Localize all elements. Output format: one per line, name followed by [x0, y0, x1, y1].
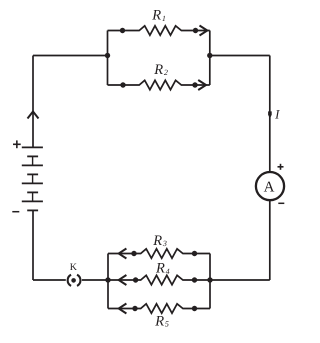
current arrow on R2 branch: [198, 80, 206, 90]
svg-text:A: A: [264, 179, 275, 195]
wire left bus of top parallel group: [107, 31, 109, 86]
wire bottom main right: [210, 279, 270, 281]
battery B1 (4 cells): [22, 147, 43, 210]
svg-text:I: I: [274, 108, 280, 122]
node at top-right junction: [207, 53, 212, 58]
node R2 left: [120, 82, 125, 87]
current direction mark on right wire: [268, 111, 272, 118]
node R3 right: [192, 251, 197, 256]
node R2 right: [192, 82, 197, 87]
node R4 right: [192, 277, 197, 282]
switch K: [68, 275, 81, 286]
resistor R2: [108, 80, 210, 89]
node at bottom-left junction: [105, 277, 110, 282]
node R1 left: [120, 28, 125, 33]
switch K contact dot: [71, 278, 76, 283]
current arrow on R5 branch: [119, 304, 127, 314]
resistor R1: [108, 26, 210, 35]
svg-text:R5: R5: [154, 313, 169, 329]
wire top main left: [33, 55, 108, 57]
svg-text:R4: R4: [155, 261, 170, 277]
ammeter plus sign: [278, 164, 284, 170]
battery plus sign: [13, 140, 21, 148]
node R3 left: [131, 251, 136, 256]
node at bottom-right junction: [207, 277, 212, 282]
current arrow on R3 branch: [119, 249, 127, 259]
svg-text:R2: R2: [153, 62, 168, 78]
node at top-left junction: [105, 53, 110, 58]
wire left bus of bottom parallel group: [107, 254, 109, 309]
node R1 right: [193, 28, 198, 33]
ammeter A1: [256, 172, 284, 200]
wire right vertical upper: [269, 56, 271, 172]
svg-text:R3: R3: [152, 233, 167, 249]
wire switch to bottom left bus: [82, 279, 108, 281]
wire right vertical lower: [269, 201, 271, 280]
ammeter minus sign: [278, 202, 284, 204]
wire bottom main left: [33, 279, 66, 281]
resistor R5: [108, 304, 210, 313]
wire left vertical upper: [32, 56, 34, 148]
current arrow on R1 branch: [200, 26, 208, 36]
node R5 right: [192, 306, 197, 311]
svg-text:K: K: [70, 262, 78, 273]
wire right bus of bottom parallel group: [209, 254, 211, 309]
svg-text:R1: R1: [151, 8, 166, 24]
node R5 left: [132, 306, 137, 311]
wire right bus of top parallel group: [209, 31, 211, 86]
node R4 left: [133, 277, 138, 282]
battery minus sign: [12, 211, 19, 213]
current arrow on R4 branch: [119, 275, 127, 285]
current arrow on left wire (upward): [28, 112, 39, 119]
wire top main right: [210, 55, 270, 57]
resistor R4: [108, 275, 210, 284]
wire left vertical lower: [32, 210, 34, 280]
resistor R3: [108, 249, 210, 258]
